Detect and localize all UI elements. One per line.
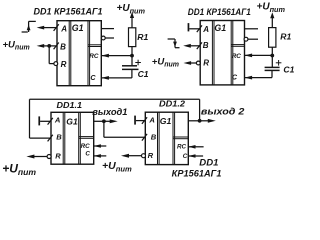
wire: RC pin to R1/C1 node with arrowhead (245, 54, 253, 58)
wire: DD1.2 output to node (188, 120, 199, 122)
svg-text:R: R (61, 60, 67, 69)
logic level bar at input A (188, 23, 190, 31)
output pin stub (direct) (245, 28, 259, 30)
trigger edge symbol (falling step) at input B (168, 38, 175, 40)
svg-text:C: C (85, 150, 90, 157)
logic level bar at DD1.2 input A (134, 116, 136, 125)
inversion circle at pin R (196, 61, 200, 65)
wire: C pin with arrowhead (101, 76, 109, 80)
wire: output1 node to DD1.2 B (104, 136, 145, 138)
wire: RC pin to R1/C1 node with arrowhead (101, 54, 109, 58)
node: RC junction dot (130, 54, 134, 58)
dynamic input slash at DD1.1 A (48, 118, 53, 125)
inversion circle at DD1.1 pin R (47, 155, 51, 159)
svg-text:B: B (56, 133, 62, 142)
svg-text:R1: R1 (280, 32, 291, 42)
svg-text:+Uпит: +Uпит (117, 3, 146, 15)
wire: trigger to pin B with arrowhead (183, 44, 191, 48)
wire: trigger to pin A with arrowhead (37, 26, 45, 30)
resistor R1 (top-right circuit) (271, 47, 273, 55)
plus sign of C1 (276, 62, 282, 64)
svg-text:A: A (60, 25, 67, 34)
svg-text:DD1.1: DD1.1 (57, 100, 83, 110)
wire: junction down to pin R (48, 46, 50, 64)
IC DD1 box (top-left monostable) (57, 21, 101, 86)
wire: +Upit to DD1.2 R with arrowhead (129, 155, 142, 157)
svg-text:B: B (60, 43, 66, 52)
node: output 2 junction dot (198, 119, 202, 123)
arrow: output 1 (104, 120, 110, 122)
capacitor C1 (polarized, top-left circuit) (131, 56, 133, 66)
wire: DD1.2 RC stub with arrowhead (188, 145, 195, 149)
IC DD1.2 box (145, 112, 188, 164)
IC DD1.1 box (51, 112, 94, 164)
IC DD1 box (top-right monostable) (200, 21, 244, 85)
feedback rail from DD1.2 output to DD1.1 B (30, 98, 200, 100)
inverted output: circle and stub (244, 37, 248, 41)
svg-text:C: C (183, 153, 188, 160)
svg-text:A: A (54, 115, 60, 124)
svg-text:DD1 КР1561АГ1: DD1 КР1561АГ1 (188, 7, 251, 17)
svg-text:выход 2: выход 2 (201, 107, 246, 117)
plus sign of C1 (135, 62, 141, 64)
logic level bar at DD1.1 input A (38, 116, 40, 125)
wire: +Upit to pin R with arrowhead (184, 61, 192, 65)
svg-text:G1: G1 (214, 23, 226, 33)
svg-text:КР1561АГ1: КР1561АГ1 (172, 169, 222, 179)
svg-text:C: C (90, 73, 96, 82)
wire: +Upit to pin B with arrowhead (37, 44, 45, 48)
svg-text:RC: RC (232, 53, 242, 60)
svg-text:R1: R1 (137, 32, 148, 42)
inverted output: circle and stub (101, 36, 105, 40)
svg-text:C1: C1 (283, 64, 294, 74)
dynamic input slash at B (54, 43, 59, 50)
svg-text:+Uпит: +Uпит (257, 2, 286, 14)
node: junction dot on B wire (47, 44, 51, 48)
svg-text:+Uпит: +Uпит (102, 160, 132, 173)
svg-text:RC: RC (177, 143, 187, 150)
wire: C pin with arrowhead (245, 76, 253, 80)
svg-text:B: B (203, 41, 209, 50)
wire: output1 node down to DD1.2 B (103, 121, 105, 137)
svg-text:+Uпит: +Uпит (3, 39, 30, 51)
+Upit supply arrow (top-right) (271, 17, 273, 28)
wire: DD1.2 C stub with arrowhead (188, 154, 195, 158)
node: output 1 junction dot (102, 119, 106, 123)
svg-text:+Uпит: +Uпит (2, 162, 36, 177)
svg-text:выход1: выход1 (92, 107, 127, 117)
svg-text:R: R (203, 59, 209, 68)
svg-text:B: B (151, 133, 157, 142)
node: RC junction dot (270, 54, 274, 58)
svg-text:A: A (148, 115, 154, 124)
svg-text:+Uпит: +Uпит (152, 56, 179, 68)
dynamic input slash at DD1.2 B (142, 134, 147, 141)
dynamic input slash at A (54, 24, 59, 31)
capacitor C1 (polarized, top-right circuit) (271, 56, 273, 68)
wire: DD1.1 output to node (94, 120, 104, 122)
svg-text:RC: RC (81, 143, 91, 150)
svg-text:DD1 КР1561АГ1: DD1 КР1561АГ1 (34, 5, 103, 16)
wire: +Upit to DD1.1 R with arrowhead (34, 156, 47, 158)
svg-text:C1: C1 (138, 69, 149, 79)
dynamic input slash at DD1.2 A (142, 117, 147, 124)
dynamic input slash at A (197, 25, 202, 32)
svg-text:G1: G1 (66, 117, 78, 127)
dynamic input slash at DD1.1 B (48, 135, 53, 142)
inversion circle at DD1.2 pin R (142, 154, 146, 158)
wire: DD1.1 C stub with arrowhead (94, 154, 101, 158)
trigger edge symbol (rising step) at input A (22, 31, 28, 33)
+Upit supply arrow (top-left) (131, 17, 133, 28)
wire: DD1.1 RC stub with arrowhead (94, 144, 101, 148)
svg-text:A: A (202, 25, 209, 34)
wire: output2 node up to feedback rail (199, 99, 201, 121)
svg-text:C: C (232, 73, 238, 82)
dynamic input slash at B (197, 42, 202, 49)
resistor R1 (top-left circuit) (131, 47, 133, 56)
svg-text:RC: RC (89, 53, 99, 60)
svg-text:DD1: DD1 (199, 158, 218, 169)
svg-text:G1: G1 (72, 23, 84, 33)
svg-text:G1: G1 (160, 116, 172, 126)
arrow: output 2 (200, 120, 209, 122)
inversion circle at pin R (54, 62, 58, 66)
svg-text:DD1.2: DD1.2 (159, 99, 185, 109)
svg-text:R: R (55, 152, 61, 161)
svg-text:R: R (148, 151, 154, 160)
output pin stub (direct) (101, 28, 114, 30)
